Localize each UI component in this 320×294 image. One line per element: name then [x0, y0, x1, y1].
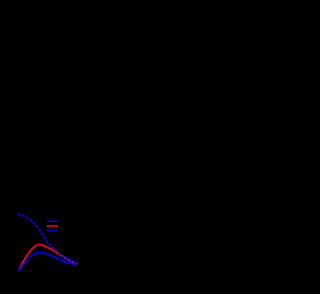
blue dashed curve	[18, 214, 77, 263]
red solid curve	[19, 245, 77, 271]
blue solid curve	[19, 253, 76, 271]
legend red line	[47, 225, 58, 227]
legend blue line top	[47, 220, 58, 222]
legend blue line bottom	[47, 230, 58, 232]
